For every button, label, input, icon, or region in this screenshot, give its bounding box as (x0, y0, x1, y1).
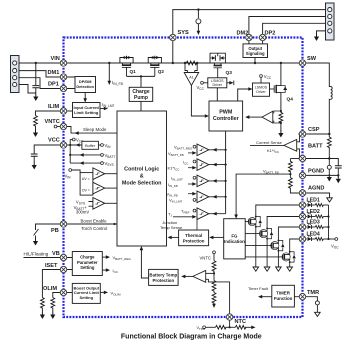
net V_BATT_REG in (174, 145, 196, 151)
pin OLIM (43, 286, 67, 296)
capacitor C_IN (32, 63, 39, 94)
wire detection to limit setting (83, 93, 87, 103)
svg-text:Setting: Setting (80, 265, 95, 270)
capacitor C_BATT (335, 166, 342, 184)
svg-text:ISET: ISET (45, 263, 58, 269)
svg-text:Protection: Protection (152, 278, 174, 283)
svg-text:Function: Function (274, 296, 293, 301)
resistor R_comp (279, 112, 283, 123)
transistor Q3 body (214, 63, 222, 78)
svg-text:Controller: Controller (213, 116, 240, 122)
block battery temp protection (149, 269, 179, 285)
svg-text:Thermal: Thermal (185, 233, 202, 238)
wire timer fault (248, 286, 272, 298)
net K1 I_CC in (168, 166, 197, 172)
pin SYS (170, 34, 176, 40)
current source I_SYS (196, 10, 201, 35)
svg-text:&: & (140, 174, 144, 180)
op-amp A2 (EA) (245, 111, 273, 123)
block output signaling (243, 38, 268, 58)
wire Q4 source down (274, 94, 284, 138)
terminal Vcc driver2 (260, 74, 272, 83)
op-amp A1 (input current sense) (184, 63, 199, 86)
net V_IN_FB in (167, 192, 197, 198)
LED D1 + resistor (303, 201, 329, 207)
gm amp GMI (197, 159, 226, 171)
wire Q4 drain to rail (280, 63, 282, 84)
svg-text:VB: VB (52, 251, 60, 257)
LED D4 + resistor (303, 235, 329, 241)
block LSMOS driver 1 (208, 78, 227, 88)
svg-text:BATT: BATT (308, 144, 323, 150)
block DP/DM detection (64, 77, 96, 93)
wire I_IN_LMT out (100, 102, 115, 110)
svg-text:NTC: NTC (235, 319, 247, 325)
svg-text:Protection: Protection (183, 238, 205, 243)
pin LED1 (299, 198, 320, 209)
wire J2 to DP2 (263, 23, 326, 37)
pin PGND (299, 169, 324, 179)
gm amp GMIN2 (197, 191, 226, 203)
connector J1 (USB input, left) (11, 56, 20, 93)
svg-text:VCC: VCC (48, 138, 60, 144)
svg-text:Q3: Q3 (226, 70, 233, 76)
pin AGND (299, 186, 324, 197)
svg-text:Timer Fault: Timer Fault (248, 286, 269, 291)
net T_J in (160, 212, 197, 231)
transistor Q1 (120, 56, 136, 77)
pushbutton at PB (33, 224, 64, 246)
net I_IN_LMT in (171, 176, 196, 182)
wire J2 to DM2 (249, 17, 326, 38)
resistor R_ISET (40, 270, 64, 320)
net I_IN_FB in (168, 182, 197, 188)
arrow I_IN_FB (108, 63, 124, 86)
wire J1 VBUS to VIN (19, 62, 64, 64)
wire Vcc to driver1 (197, 81, 208, 91)
svg-text:UV =: UV = (82, 177, 90, 181)
svg-text:FG: FG (231, 234, 238, 239)
pin DP2 (259, 31, 275, 41)
terminal V_IN tap (101, 143, 112, 149)
pin VNTC (45, 119, 67, 130)
svg-text:DP2: DP2 (265, 31, 276, 37)
comparator column: gm amp GMV (197, 144, 226, 156)
pin VB (52, 251, 67, 261)
resistor R_SNS (303, 133, 332, 159)
IC boundary (blue dashed) (64, 38, 303, 318)
resistor R_NTC1 (206, 261, 216, 275)
block UV OV thresholds (80, 173, 93, 196)
svg-text:SW: SW (307, 56, 317, 62)
pin DM2 (237, 31, 253, 41)
buffer U_buf (76, 141, 101, 149)
wire boost enable / torch control (64, 218, 118, 231)
LED D3 + resistor (303, 223, 329, 229)
transistor Q4 (270, 84, 294, 103)
wire LED rail to V_OC (327, 205, 339, 250)
ground C_IN (33, 94, 38, 102)
svg-text:H/L/Floating: H/L/Floating (24, 252, 49, 257)
svg-text:PGND: PGND (308, 169, 324, 175)
svg-text:VNTC: VNTC (200, 256, 211, 261)
pin VCC (48, 138, 67, 149)
svg-text:Setting: Setting (80, 295, 94, 300)
svg-text:A1: A1 (189, 76, 193, 80)
svg-text:DM2: DM2 (237, 31, 249, 37)
svg-text:VIN: VIN (51, 56, 60, 62)
svg-text:OLIM: OLIM (43, 286, 57, 292)
wire V_BATT_FB to FG (234, 168, 290, 218)
transistor M1 LED1 (245, 205, 302, 271)
wire J2 gnd (314, 31, 326, 41)
node VCC internal bus (64, 140, 101, 164)
svg-text:Control Logic: Control Logic (124, 167, 159, 173)
transistor M3 LED3 (245, 227, 302, 271)
svg-text:LED3: LED3 (307, 220, 320, 226)
resistor R_sense input (185, 61, 197, 65)
svg-text:VNTC: VNTC (45, 119, 60, 125)
transistor Q3 pair (210, 53, 232, 76)
gm amp GMIN1 (197, 175, 226, 187)
wire VB input (24, 252, 64, 258)
svg-text:Q4: Q4 (287, 97, 294, 103)
wire PWM to driver2 (238, 87, 253, 101)
svg-text:Temp Sense: Temp Sense (160, 225, 183, 230)
net V_BATT_REG out (102, 255, 131, 261)
capacitor C_VCC (31, 145, 64, 170)
block input current limit setting (64, 103, 101, 118)
svg-text:Current Sense: Current Sense (256, 140, 283, 145)
pin TMR (299, 290, 319, 300)
capacitor C_TMR (303, 297, 321, 317)
wire driver1 to PWM (216, 88, 218, 101)
block TIMER function (272, 285, 295, 307)
transistor M2 LED2 (245, 217, 302, 272)
resistor divider upper (289, 159, 293, 176)
svg-text:Pump: Pump (134, 95, 148, 101)
resistor R_OLIM (50, 293, 63, 320)
block charge pump (129, 87, 153, 101)
pin LED3 (299, 220, 320, 231)
wire J2 to SYS riser (173, 8, 326, 63)
connector J2 (output, top right) (326, 3, 335, 40)
svg-text:LED4: LED4 (307, 232, 320, 238)
wire driver1 out (227, 81, 234, 86)
pin BATT (299, 144, 323, 162)
svg-text:CSP: CSP (308, 127, 320, 133)
net I_CC out (102, 268, 118, 274)
wire J1 D- to DM1 (19, 71, 64, 77)
pin ISET (45, 263, 67, 273)
comparator boost supplement (74, 198, 117, 215)
inductor L1 (303, 63, 333, 134)
pin LED4 (299, 232, 320, 243)
terminal V_BATT tap (80, 153, 116, 159)
wire A1 out to PWM (191, 86, 209, 118)
transistor Q2 (148, 56, 164, 77)
svg-text:LED2: LED2 (307, 209, 320, 215)
wire thermal to control logic (168, 236, 179, 240)
wire Q1 Q2 gate bus to charge pump (127, 75, 155, 87)
svg-text:Sleep Mode: Sleep Mode (83, 127, 107, 132)
wire BATT internal (290, 157, 302, 159)
comparator CMP thermal (197, 208, 226, 220)
block thermal protection (179, 230, 209, 246)
wire control logic to battery temp (140, 246, 149, 278)
svg-text:Detection: Detection (76, 84, 94, 89)
svg-text:OV =: OV = (82, 189, 90, 193)
comparator NTC (181, 271, 206, 283)
comparator OV (93, 182, 117, 194)
op-amp current sense (250, 134, 300, 159)
svg-text:Q2: Q2 (158, 69, 165, 74)
svg-text:Driver: Driver (213, 83, 223, 87)
net V_OLIM out (100, 290, 121, 296)
pin LED2 (299, 209, 320, 220)
wire charge pump to control logic (140, 101, 142, 111)
SYS label (178, 30, 189, 36)
svg-text:Driver: Driver (256, 90, 266, 94)
net V_BATT_FB in (168, 151, 197, 157)
block FG indication (224, 219, 246, 259)
wire main input rail VIN to SW (64, 62, 303, 64)
wire comparator bus to PWM (225, 131, 227, 214)
pin PB (51, 221, 67, 234)
svg-text:Battery Temp: Battery Temp (149, 272, 177, 277)
wire J1 D+ to DP1 (19, 78, 64, 89)
terminal V_IN uvov (65, 169, 81, 180)
pin SW (299, 56, 316, 66)
wire CSP internal (298, 133, 302, 135)
wire sleep mode (64, 127, 118, 135)
svg-text:Boost Enable: Boost Enable (81, 218, 108, 223)
svg-text:PWM: PWM (219, 110, 233, 116)
pin CSP (299, 127, 319, 137)
svg-text:300mV: 300mV (76, 210, 89, 215)
wire NTC pin to comparator (206, 279, 230, 317)
block LSMOS driver 2 (253, 83, 270, 96)
terminal VNTC pin ext (54, 125, 63, 128)
svg-text:Buffer: Buffer (85, 144, 96, 148)
pin VIN (51, 56, 67, 66)
svg-text:TIMER: TIMER (276, 291, 290, 296)
resistor R_NTC3 (212, 293, 216, 309)
svg-text:Torch Control: Torch Control (81, 226, 107, 231)
transistor M4 LED4 (245, 239, 302, 271)
svg-text:AGND: AGND (308, 186, 324, 192)
pin NTC (226, 314, 246, 325)
net I_CC in (183, 159, 196, 165)
block control logic (117, 111, 167, 246)
resistor R_ILIM (33, 111, 64, 137)
svg-text:Limit Setting: Limit Setting (74, 110, 99, 115)
wire thermal to bus (209, 236, 224, 240)
terminal V_CC tap (70, 138, 84, 144)
block boost output current limit setting (64, 283, 101, 303)
net T_REF in (181, 208, 196, 214)
wire J1 shield (19, 85, 36, 94)
block PWM controller (209, 101, 243, 131)
svg-text:DP1: DP1 (48, 82, 59, 88)
wire PGND external (303, 174, 340, 176)
svg-text:Q1: Q1 (130, 69, 137, 74)
ground AGND external (303, 193, 333, 202)
svg-text:PB: PB (51, 228, 59, 234)
resistor divider lower (289, 174, 303, 193)
svg-text:Functional Block Diagram in Ch: Functional Block Diagram in Charge Mode (121, 334, 262, 341)
pin DP1 (48, 82, 67, 92)
svg-text:SYS: SYS (178, 30, 189, 36)
battery cell symbol (303, 157, 339, 181)
wire TMR to timer (294, 296, 302, 298)
svg-text:LED1: LED1 (307, 198, 320, 204)
wire NTC external divider (197, 317, 256, 331)
svg-text:ILIM: ILIM (48, 104, 60, 110)
wire output signaling to rail (254, 58, 256, 64)
resistor R_NTC2 (212, 273, 216, 292)
svg-text:TMR: TMR (307, 290, 319, 296)
svg-text:Signaling: Signaling (246, 51, 265, 56)
net V_IN_LMT in (169, 198, 196, 204)
pin ILIM (48, 104, 67, 114)
svg-text:Mode Selection: Mode Selection (122, 181, 162, 187)
terminal V_SYS tap (80, 161, 114, 167)
comparator UV (93, 168, 117, 180)
svg-text:Indication: Indication (224, 239, 245, 244)
pin DM1 (48, 70, 67, 80)
terminal VNTC pullup (200, 251, 216, 261)
svg-text:DM1: DM1 (48, 70, 60, 76)
LED D2 + resistor (303, 213, 329, 219)
block charge parameter setting (64, 252, 103, 276)
